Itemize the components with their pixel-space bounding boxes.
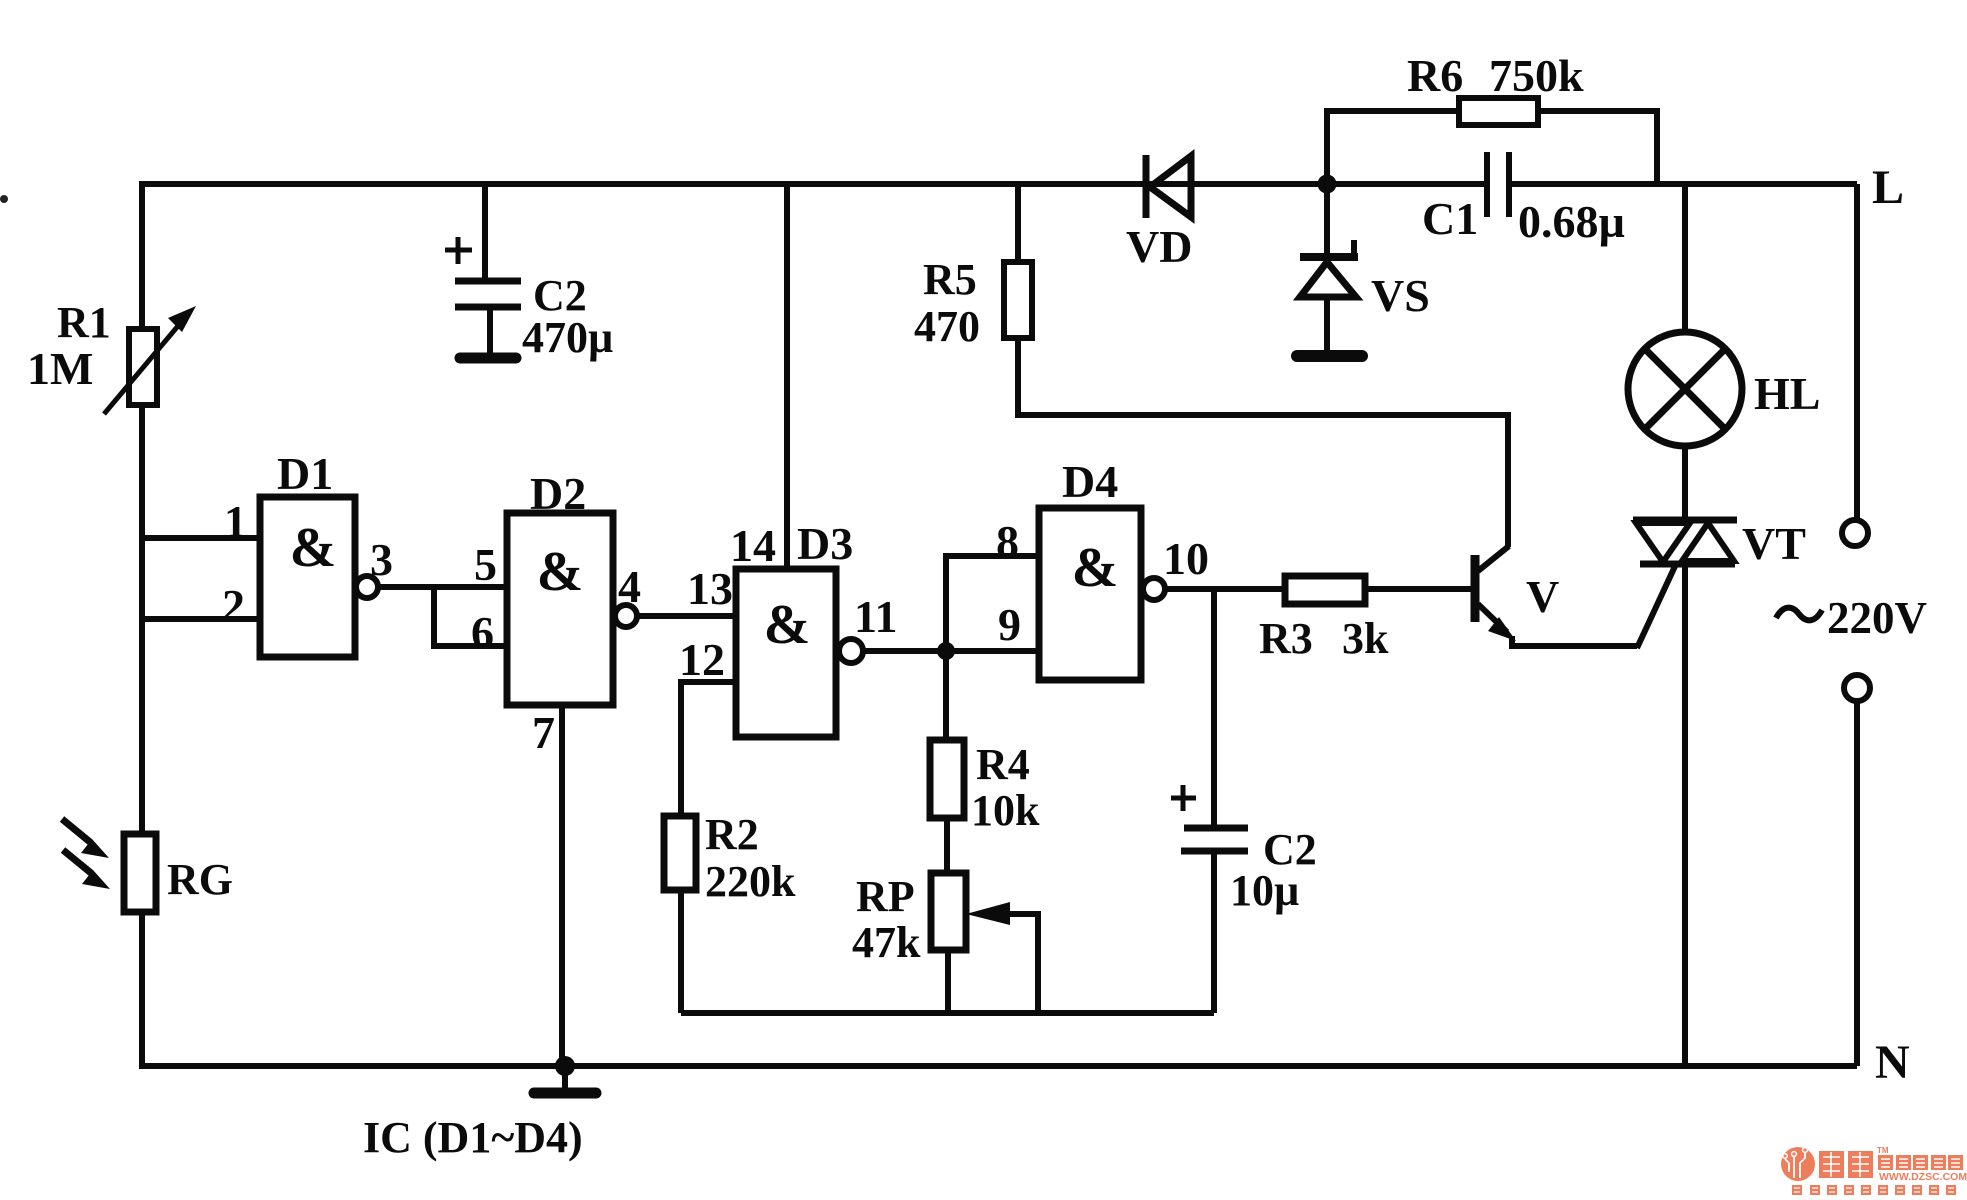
label pin 7	[532, 707, 555, 758]
svg-text:&: &	[290, 517, 337, 579]
ground VS	[1297, 350, 1362, 362]
svg-text:220k: 220k	[705, 857, 796, 906]
label 470u	[522, 313, 613, 362]
watermark url	[1879, 1171, 1967, 1183]
svg-text:750k: 750k	[1489, 50, 1584, 101]
wire branch up to D4 pin 8	[946, 556, 1039, 651]
svg-text:L: L	[1872, 161, 1904, 214]
svg-text:220V: 220V	[1827, 593, 1927, 643]
svg-text:D1: D1	[277, 448, 333, 499]
svg-text:TM: TM	[1877, 1146, 1889, 1155]
svg-text:C1: C1	[1422, 193, 1478, 244]
gate D2	[507, 513, 613, 705]
label 1M	[27, 343, 93, 394]
resistor R1 (photo-variable)	[104, 306, 196, 414]
label C2	[533, 271, 587, 320]
terminal L	[1842, 520, 1868, 546]
wire D3 pin 12 to R2	[681, 682, 736, 816]
label RP	[856, 872, 915, 921]
node junction D3 out	[937, 642, 955, 660]
svg-text:RP: RP	[856, 872, 915, 921]
D4 output bubble pin 10	[1143, 578, 1165, 600]
svg-text:WWW.DZSC.COM: WWW.DZSC.COM	[1879, 1171, 1967, 1183]
svg-text:3k: 3k	[1342, 614, 1389, 663]
label pin 14	[730, 520, 776, 571]
svg-text:1M: 1M	[27, 343, 93, 394]
svg-text:&: &	[764, 594, 811, 656]
svg-text:R4: R4	[976, 740, 1030, 789]
watermark big characters	[1819, 1151, 1873, 1178]
resistor R2	[664, 816, 696, 1013]
wire D3 out to D4 pin 9	[863, 648, 1039, 654]
terminal 220V lower	[1844, 675, 1870, 701]
wire D2 out to D3 pin 13	[637, 613, 736, 619]
label pin 10	[1163, 533, 1209, 584]
label pin 8	[996, 516, 1019, 567]
wire D4 out to R3	[1165, 586, 1285, 592]
svg-text:D3: D3	[797, 518, 853, 569]
label 47k	[852, 918, 921, 967]
label RG	[167, 855, 233, 904]
watermark TM	[1877, 1146, 1889, 1155]
label pin 12	[679, 634, 725, 685]
transistor V	[1475, 546, 1637, 646]
label R3 3k	[1259, 614, 1389, 663]
svg-text:D4: D4	[1062, 456, 1118, 507]
label pin 3	[370, 534, 393, 585]
svg-text:470µ: 470µ	[522, 313, 613, 362]
svg-text:R2: R2	[705, 810, 759, 859]
potentiometer RP	[931, 873, 1038, 1013]
svg-text:V: V	[1526, 571, 1559, 622]
svg-text:N: N	[1875, 1036, 1910, 1089]
svg-text:14: 14	[730, 520, 776, 571]
label R2	[705, 810, 759, 859]
label pin 2	[222, 580, 245, 631]
gate D1	[260, 497, 355, 657]
svg-text:12: 12	[679, 634, 725, 685]
capacitor C2 10u (polarized)	[1171, 589, 1248, 1013]
label R6 750k	[1407, 50, 1584, 101]
svg-text:R3: R3	[1259, 614, 1313, 663]
label L	[1872, 161, 1904, 214]
D3 output bubble pin 11	[839, 639, 863, 663]
svg-text:VD: VD	[1126, 221, 1192, 272]
capacitor C1	[1487, 152, 1509, 217]
zener diode VS	[1300, 184, 1358, 350]
svg-text:7: 7	[532, 707, 555, 758]
svg-text:10: 10	[1163, 533, 1209, 584]
label 10k	[971, 786, 1040, 835]
wire top rail right of C1	[1511, 181, 1857, 187]
svg-text:11: 11	[854, 591, 897, 642]
label R1	[57, 298, 111, 347]
resistor R6 with loop wires	[1327, 98, 1657, 184]
svg-text:&: &	[1072, 537, 1119, 599]
wire triac gate	[1637, 564, 1676, 648]
label 10u	[1230, 866, 1299, 915]
wire D1 pin1	[142, 535, 260, 541]
watermark bottom row characters	[1792, 1185, 1956, 1195]
wire D1 out to D2 pins 5,6	[378, 587, 507, 646]
svg-text:RG: RG	[167, 855, 233, 904]
label C1	[1422, 193, 1478, 244]
watermark medium characters	[1878, 1155, 1963, 1170]
svg-text:D2: D2	[530, 468, 586, 519]
label pin 11	[854, 591, 897, 642]
D1 output bubble pin 3	[356, 576, 378, 598]
label R4	[976, 740, 1030, 789]
svg-text:HL: HL	[1754, 368, 1820, 419]
label VD	[1126, 221, 1192, 272]
svg-text:VS: VS	[1371, 270, 1430, 321]
wire D3 pin 14 from top rail	[784, 184, 790, 569]
svg-text:R6: R6	[1407, 50, 1463, 101]
svg-text:9: 9	[998, 599, 1021, 650]
resistor R5	[1004, 184, 1508, 547]
svg-text:13: 13	[687, 563, 733, 614]
D2 output bubble pin 4	[615, 605, 637, 627]
svg-text:&: &	[537, 541, 584, 603]
stray ink speck left edge	[0, 195, 8, 203]
wire D2 pin 7 down to ground rail	[559, 705, 565, 1066]
label N	[1875, 1036, 1910, 1089]
wire right rail lower (220V to N corner)	[1854, 702, 1860, 1066]
node junction IC ground	[555, 1056, 575, 1076]
gate D3	[736, 569, 836, 737]
triac VT	[1633, 520, 1737, 1066]
svg-text:R1: R1	[57, 298, 111, 347]
svg-text:VT: VT	[1742, 518, 1806, 569]
resistor R4	[930, 651, 964, 873]
label D1	[277, 448, 333, 499]
label 0.68u	[1518, 196, 1625, 247]
resistor R3	[1285, 576, 1471, 604]
label pin 6	[471, 607, 494, 658]
label 470	[914, 302, 980, 351]
wire timing sub-rail	[681, 1010, 1214, 1016]
photoresistor RG	[62, 819, 156, 912]
svg-text:10µ: 10µ	[1230, 866, 1299, 915]
label R5	[923, 255, 977, 304]
ground IC	[534, 1066, 596, 1093]
capacitor C2 470u (polarized, top left)	[445, 184, 521, 358]
label pin 5	[474, 539, 497, 590]
wire right rail upper (to L terminal)	[1854, 184, 1860, 519]
svg-text:8: 8	[996, 516, 1019, 567]
svg-text:0.68µ: 0.68µ	[1518, 196, 1625, 247]
label IC (D1~D4)	[363, 1113, 583, 1162]
svg-text:2: 2	[222, 580, 245, 631]
svg-text:1: 1	[224, 496, 247, 547]
wire D1 pin2	[142, 616, 260, 622]
watermark logo circle	[1781, 1147, 1815, 1181]
label D3	[797, 518, 853, 569]
label VS	[1371, 270, 1430, 321]
diode VD	[1146, 155, 1191, 218]
label pin 9	[998, 599, 1021, 650]
label D4	[1062, 456, 1118, 507]
wire left rail	[139, 181, 145, 1066]
label pin 13	[687, 563, 733, 614]
svg-text:R5: R5	[923, 255, 977, 304]
svg-text:4: 4	[618, 561, 641, 612]
label V	[1526, 571, 1559, 622]
svg-text:5: 5	[474, 539, 497, 590]
label VT	[1742, 518, 1806, 569]
gate D4	[1039, 508, 1141, 680]
lamp HL	[1628, 184, 1742, 520]
node junction VD/R6/VS	[1318, 175, 1337, 194]
wire top rail left of C1	[140, 181, 1485, 187]
wire bottom rail (N rail)	[139, 1063, 1857, 1069]
label 220k	[705, 857, 796, 906]
svg-text:470: 470	[914, 302, 980, 351]
label pin 1	[224, 496, 247, 547]
label ~220V	[1776, 593, 1927, 643]
svg-text:6: 6	[471, 607, 494, 658]
label C2	[1263, 825, 1317, 874]
svg-text:47k: 47k	[852, 918, 921, 967]
label D2	[530, 468, 586, 519]
label HL	[1754, 368, 1820, 419]
svg-text:10k: 10k	[971, 786, 1040, 835]
label pin 4	[618, 561, 641, 612]
svg-text:3: 3	[370, 534, 393, 585]
svg-text:IC (D1~D4): IC (D1~D4)	[363, 1113, 583, 1162]
